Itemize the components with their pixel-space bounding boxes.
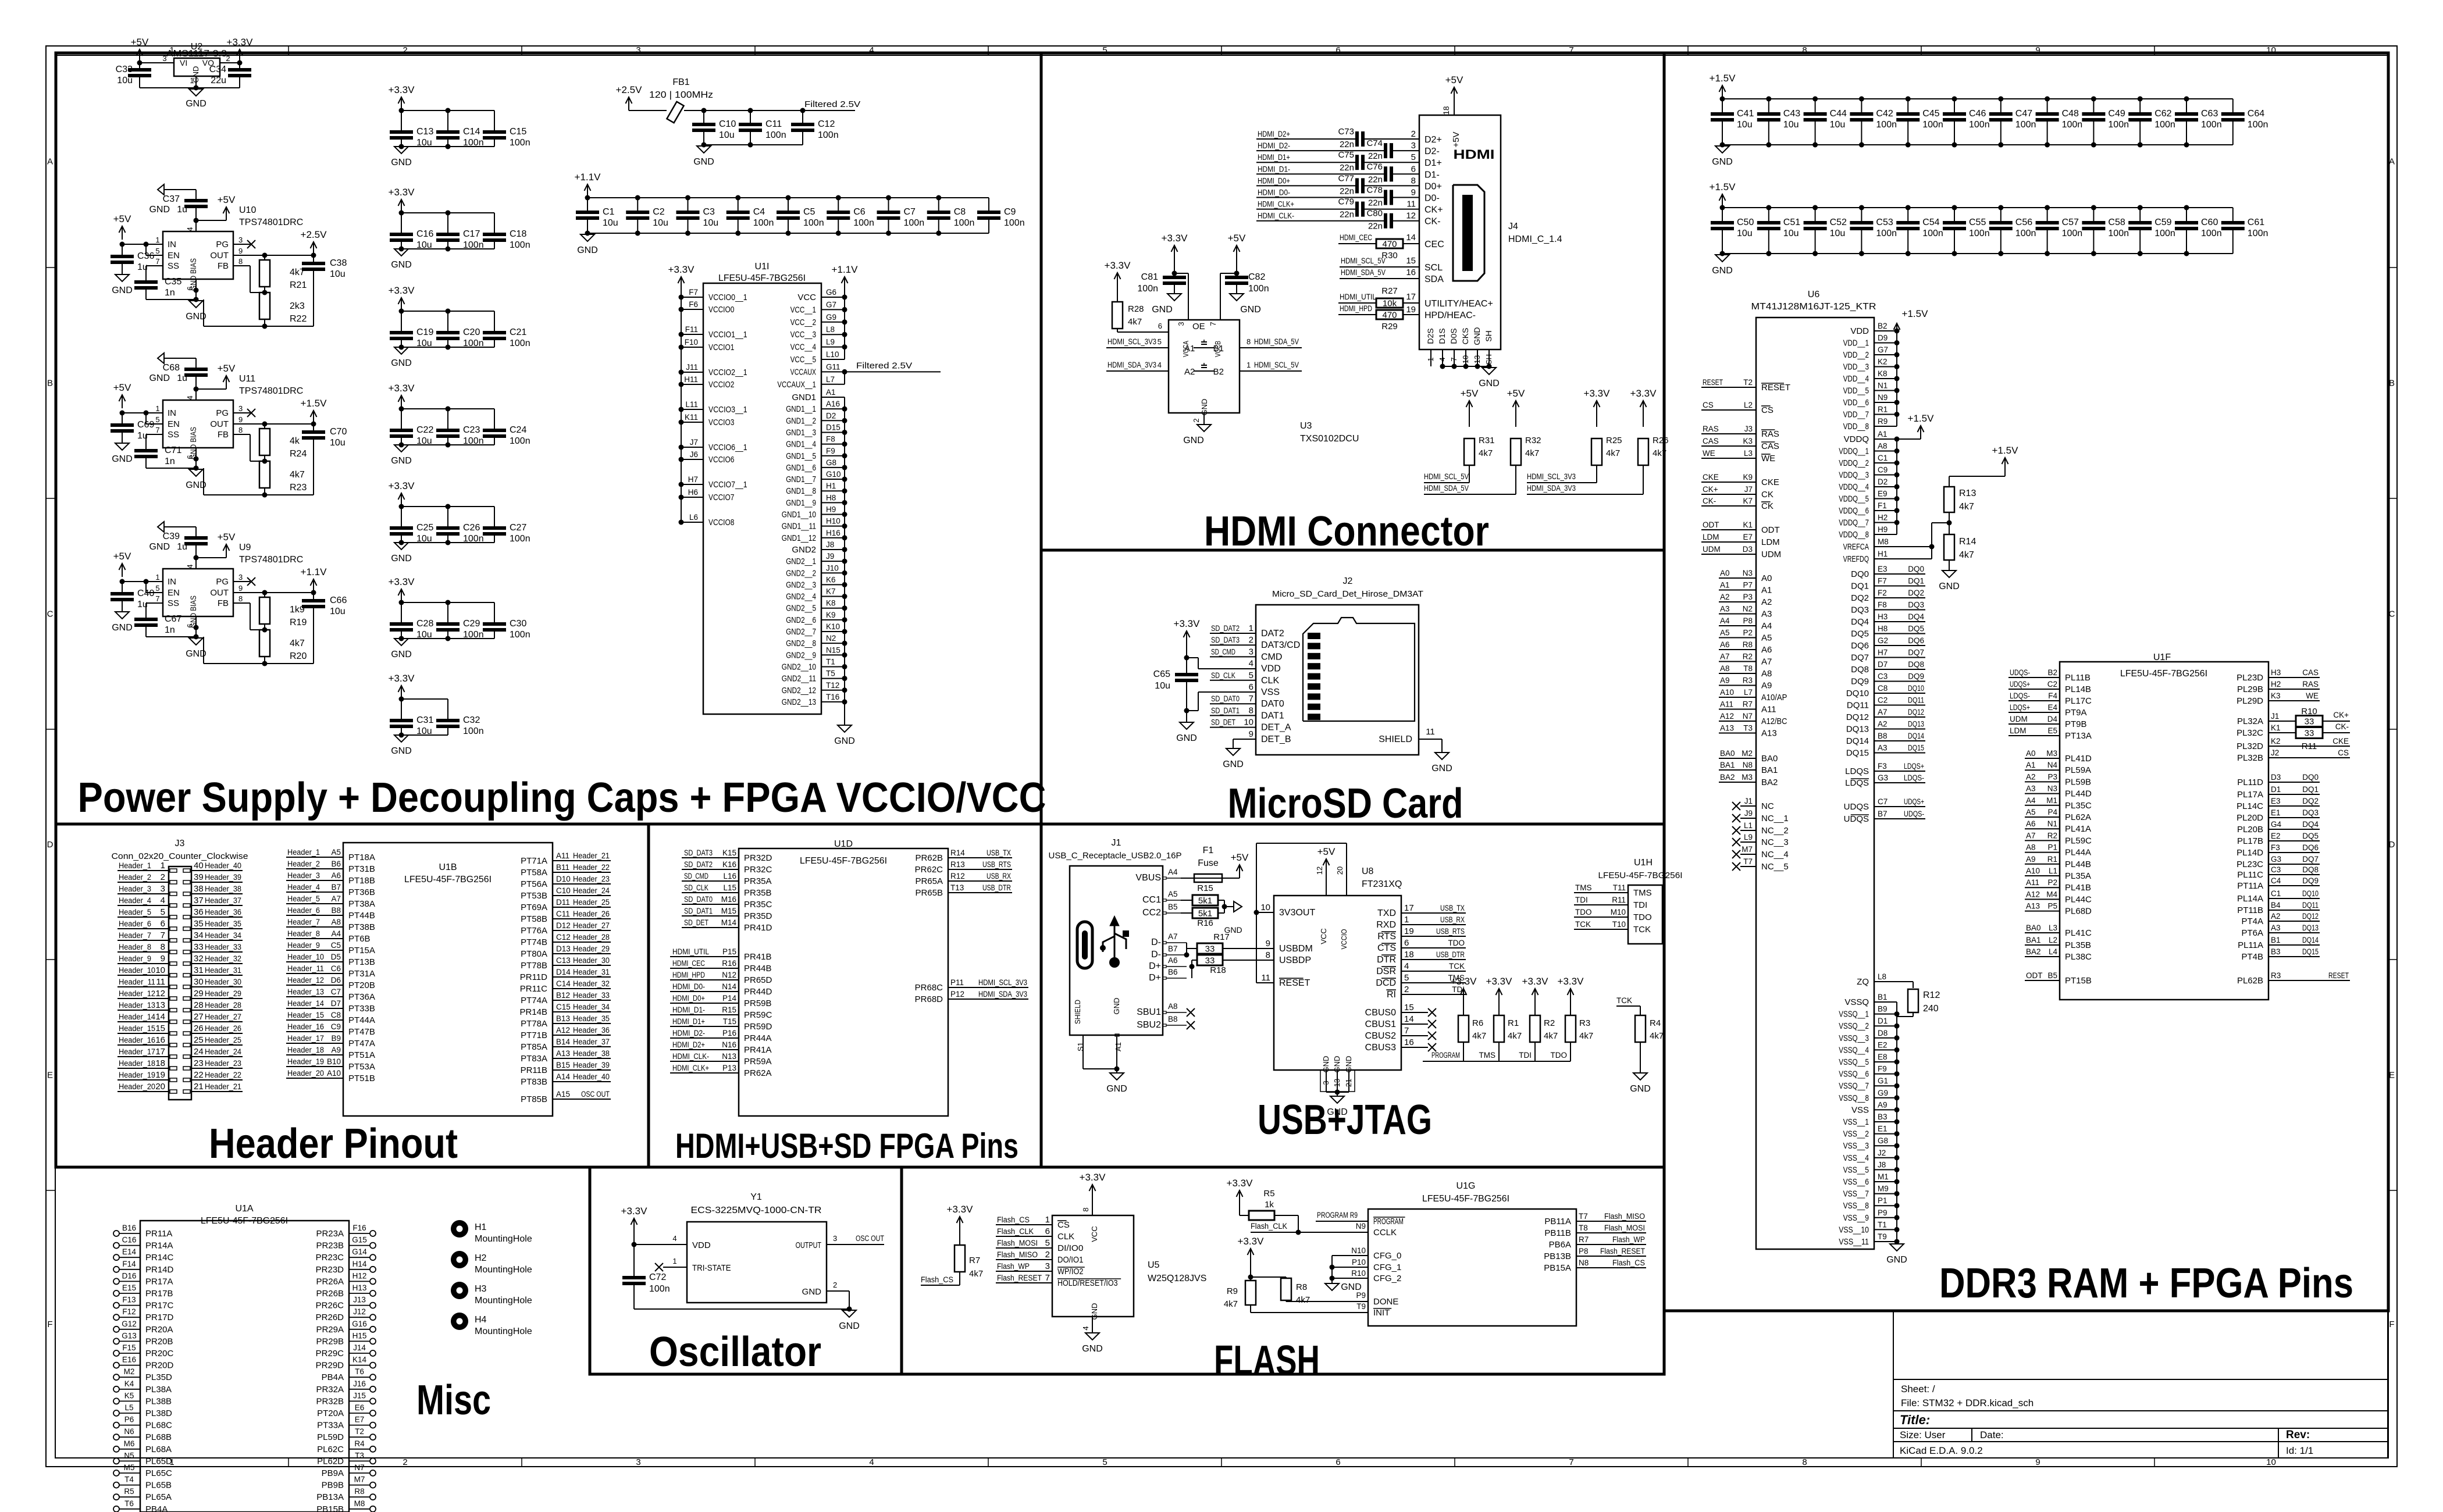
U6 pin F7 DQ1: [1851, 577, 1925, 591]
svg-text:VDDQ__4: VDDQ__4: [1839, 482, 1869, 492]
ground below C81: [1152, 294, 1181, 315]
capacitor C57 100n: [2036, 208, 2083, 254]
svg-text:P16: P16: [722, 1029, 736, 1037]
U1A pin T6 PB4A: [322, 1367, 376, 1382]
svg-text:N6: N6: [124, 1427, 134, 1436]
svg-text:PL38B: PL38B: [145, 1396, 172, 1406]
svg-text:D1S: D1S: [1437, 328, 1447, 344]
svg-text:Flash_CS: Flash_CS: [1612, 1258, 1645, 1267]
svg-text:Header_6: Header_6: [287, 906, 320, 915]
ground for bank C13: [391, 147, 412, 167]
svg-text:35: 35: [194, 919, 204, 929]
svg-text:GND: GND: [1090, 1303, 1099, 1320]
U1F pin H3 CAS: [2237, 668, 2320, 683]
resistor R4 4k7 TCK pulldown: [1616, 996, 1664, 1073]
svg-text:22n: 22n: [1368, 174, 1383, 184]
svg-text:PR20B: PR20B: [145, 1336, 173, 1346]
svg-text:F15: F15: [122, 1343, 136, 1352]
U6 pin D7 DQ8: [1851, 660, 1925, 675]
svg-text:A4: A4: [331, 929, 341, 938]
svg-text:DQ5: DQ5: [1908, 625, 1924, 633]
U6 pin C7 UDQS+: [1844, 797, 1925, 812]
svg-text:R13: R13: [1959, 488, 1976, 498]
svg-text:Header_10: Header_10: [119, 966, 155, 975]
svg-text:C17: C17: [463, 229, 480, 239]
svg-text:100n: 100n: [803, 218, 824, 228]
svg-text:DQ10: DQ10: [2302, 889, 2319, 898]
svg-text:VDD__4: VDD__4: [1843, 374, 1869, 384]
svg-text:MT41J128M16JT-125_KTR: MT41J128M16JT-125_KTR: [1751, 302, 1876, 312]
capacitor C1 10u: [576, 198, 618, 233]
svg-text:PR59D: PR59D: [744, 1022, 772, 1032]
svg-text:DQ0: DQ0: [2302, 773, 2319, 782]
svg-text:A7: A7: [1168, 932, 1178, 941]
svg-text:R15: R15: [722, 1005, 736, 1014]
capacitor C74 22n: [1256, 138, 1419, 161]
svg-text:PB6A: PB6A: [1549, 1240, 1571, 1250]
J2 pin 4 VDD: [1249, 659, 1281, 674]
svg-text:E1: E1: [1878, 1125, 1888, 1133]
svg-text:CBUS2: CBUS2: [1365, 1031, 1396, 1041]
svg-text:C8: C8: [331, 1011, 341, 1019]
U1A pin R4 PL62C: [317, 1439, 376, 1454]
U3 pin A1 HDMI_SCL_3V3: [1106, 337, 1169, 348]
FPGA U1A LFE5U-45F-7BG256I: [140, 1204, 349, 1512]
svg-text:K8: K8: [1878, 369, 1888, 378]
svg-text:8: 8: [1802, 1457, 1807, 1467]
capacitor C61 100n: [2221, 208, 2268, 254]
U1F pin P2 A11: [2025, 878, 2091, 893]
svg-text:J16: J16: [353, 1379, 366, 1388]
J3 pin 2 Header_2: [117, 872, 177, 884]
svg-text:BA0: BA0: [1720, 749, 1735, 758]
U8 pin 10 3V3OUT: [1256, 903, 1315, 918]
svg-text:F3: F3: [1878, 762, 1887, 771]
U6 pin C2 DQ11: [1847, 696, 1925, 711]
capacitor C72 100n: [622, 1244, 670, 1309]
svg-text:B7: B7: [331, 883, 341, 891]
svg-text:PR11D: PR11D: [520, 972, 547, 982]
ground at J2 DET_B: [1223, 739, 1256, 769]
U1F pin G3 DQ7: [2237, 855, 2320, 869]
capacitor C46 100n: [1943, 99, 1990, 145]
svg-text:10u: 10u: [1783, 229, 1799, 238]
U8 pin 14 CBUS1 no-connect: [1365, 1014, 1436, 1029]
svg-text:H1: H1: [475, 1222, 487, 1232]
svg-text:+5V: +5V: [113, 551, 131, 562]
svg-text:D2: D2: [826, 411, 836, 420]
svg-text:PROGRAM R9: PROGRAM R9: [1317, 1211, 1358, 1219]
capacitor C27 100n: [483, 507, 530, 544]
ferrite bead FB1 120 | 100MHz: [629, 77, 713, 123]
svg-text:DDR3 RAM + FPGA Pins: DDR3 RAM + FPGA Pins: [1939, 1260, 2353, 1307]
svg-text:+3.3V: +3.3V: [1630, 388, 1657, 399]
svg-text:C9: C9: [1004, 207, 1016, 217]
svg-text:VCCIO6__1: VCCIO6__1: [708, 443, 747, 452]
svg-text:PR23C: PR23C: [316, 1253, 344, 1263]
svg-text:GND2__7: GND2__7: [786, 627, 816, 637]
svg-text:VSS__7: VSS__7: [1843, 1189, 1869, 1199]
svg-text:VSS__2: VSS__2: [1843, 1129, 1869, 1139]
svg-text:C68: C68: [163, 363, 180, 373]
svg-text:+3.3V: +3.3V: [947, 1204, 974, 1215]
svg-text:4: 4: [869, 1457, 874, 1467]
svg-text:A11: A11: [1761, 705, 1776, 715]
U1F pin N4 A1: [2025, 761, 2091, 775]
svg-text:P1: P1: [2047, 843, 2057, 852]
svg-text:Header_34: Header_34: [573, 1003, 610, 1011]
svg-text:N7: N7: [1743, 712, 1753, 721]
svg-text:Header_37: Header_37: [573, 1037, 610, 1046]
svg-text:10u: 10u: [117, 76, 133, 85]
svg-text:R4: R4: [354, 1439, 365, 1448]
svg-text:C27: C27: [510, 523, 526, 533]
svg-text:2: 2: [1404, 985, 1409, 994]
svg-text:GND1__11: GND1__11: [782, 522, 816, 532]
svg-text:B14: B14: [556, 1037, 571, 1046]
svg-text:Rev:: Rev:: [2286, 1429, 2310, 1441]
svg-text:PR32D: PR32D: [744, 853, 772, 863]
svg-text:C11: C11: [765, 119, 782, 129]
svg-text:LDQS: LDQS: [1845, 766, 1869, 776]
svg-text:Header_5: Header_5: [287, 894, 320, 903]
J3 pin 10 Header_10: [117, 965, 177, 977]
svg-text:PT20A: PT20A: [317, 1408, 344, 1418]
FPGA U1H LFE5U-45F-7BG256I: [1598, 858, 1683, 944]
svg-text:Header_19: Header_19: [119, 1071, 155, 1079]
svg-text:K9: K9: [1743, 473, 1753, 482]
svg-text:VCC__2: VCC__2: [790, 318, 816, 327]
U1D pin R12 USB_RX: [915, 872, 1012, 886]
svg-text:P9: P9: [1356, 1291, 1366, 1300]
svg-text:K3: K3: [2271, 691, 2281, 700]
svg-text:10: 10: [155, 965, 165, 975]
svg-text:T13: T13: [950, 883, 964, 892]
svg-text:N5: N5: [124, 1451, 134, 1460]
svg-text:A6: A6: [331, 871, 341, 880]
svg-text:A12: A12: [2026, 890, 2040, 898]
svg-text:PL68A: PL68A: [145, 1445, 172, 1454]
svg-text:11: 11: [156, 977, 165, 987]
svg-text:Header_14: Header_14: [119, 1012, 155, 1021]
U1A pin K4 PL38A: [113, 1379, 172, 1395]
svg-text:C26: C26: [463, 523, 480, 533]
svg-text:29: 29: [194, 989, 204, 999]
svg-text:U1H: U1H: [1634, 858, 1653, 868]
svg-text:1n: 1n: [165, 457, 175, 466]
svg-text:E3: E3: [2271, 797, 2281, 805]
J4 pin 5 D1+: [1411, 152, 1442, 168]
svg-text:DQ3: DQ3: [2302, 808, 2319, 817]
svg-text:GND: GND: [186, 99, 206, 109]
power +5V at J4 pin 18: [1442, 74, 1463, 148]
svg-text:F13: F13: [122, 1296, 136, 1304]
svg-text:M10: M10: [1611, 908, 1626, 917]
svg-text:5: 5: [1045, 1238, 1050, 1248]
wire to pin 4: [194, 544, 199, 569]
svg-text:38: 38: [194, 884, 204, 894]
U1A pin F12 PR17D: [113, 1307, 174, 1322]
J3 pin 3 Header_3: [117, 884, 177, 896]
svg-text:Header_22: Header_22: [205, 1071, 241, 1079]
svg-text:PG: PG: [216, 408, 229, 418]
svg-text:C28: C28: [416, 619, 433, 629]
ground below C1: [577, 234, 598, 255]
svg-text:C46: C46: [1969, 109, 1986, 119]
svg-text:B8: B8: [1168, 1015, 1178, 1024]
svg-text:DQ1: DQ1: [1851, 582, 1869, 591]
U1G pin T9 INIT: [1251, 1302, 1391, 1318]
U1H pin T10 TCK: [1574, 920, 1651, 935]
svg-text:Header_26: Header_26: [205, 1024, 241, 1033]
U1A pin F14 PR14D: [113, 1260, 174, 1275]
svg-text:SCL: SCL: [1425, 263, 1443, 273]
svg-text:GND: GND: [802, 1287, 822, 1297]
U1F pin E3 DQ2: [2237, 797, 2320, 811]
svg-text:+3.3V: +3.3V: [1162, 233, 1188, 244]
svg-text:R14: R14: [950, 848, 965, 857]
svg-text:OSC OUT: OSC OUT: [581, 1090, 610, 1099]
svg-text:10: 10: [1244, 718, 1253, 728]
J2 pin 7 DAT0: [1210, 694, 1284, 709]
svg-text:DQ10: DQ10: [1846, 689, 1869, 698]
svg-text:H6: H6: [688, 488, 698, 497]
svg-text:PR17C: PR17C: [145, 1301, 174, 1311]
svg-text:PT31B: PT31B: [348, 864, 375, 874]
svg-text:2: 2: [1045, 1250, 1050, 1260]
capacitor C54 100n: [1896, 208, 1943, 254]
svg-text:HDMI Connector: HDMI Connector: [1204, 508, 1489, 555]
svg-text:19: 19: [1404, 926, 1414, 936]
U5 pin 3 WP/IO2: [996, 1261, 1085, 1276]
J3 pin 1 Header_1: [117, 861, 177, 872]
svg-text:VDDQ__8: VDDQ__8: [1839, 530, 1869, 540]
U6 pin C8 DQ10: [1846, 684, 1925, 698]
svg-text:CAS: CAS: [1761, 441, 1779, 451]
U1D pin K16 SD_DAT2: [682, 860, 772, 875]
capacitor C69: [111, 413, 154, 443]
svg-text:C60: C60: [2201, 217, 2218, 227]
svg-text:+3.3V: +3.3V: [389, 480, 415, 491]
svg-text:C5: C5: [803, 207, 815, 217]
U3 pin B1 HDMI_SDA_5V: [1240, 337, 1302, 348]
svg-text:TMS: TMS: [1479, 1051, 1496, 1060]
svg-text:CS: CS: [1761, 405, 1774, 415]
svg-text:1: 1: [1404, 915, 1409, 925]
U1F pin M4 A12: [2025, 890, 2092, 904]
svg-text:D: D: [47, 840, 54, 850]
svg-text:UDM: UDM: [2010, 715, 2028, 723]
wire C1-C9 bottom rail: [585, 231, 989, 236]
svg-text:DQ3: DQ3: [1908, 601, 1924, 609]
ground flag CC resistors: [1224, 901, 1242, 935]
svg-text:7: 7: [1209, 322, 1217, 326]
svg-text:Flash_CLK: Flash_CLK: [1251, 1222, 1287, 1231]
U1B pin A6 Header_3: [286, 871, 375, 886]
svg-text:14: 14: [1406, 233, 1416, 243]
svg-text:HDMI_D0+: HDMI_D0+: [1258, 176, 1290, 185]
svg-text:+5V: +5V: [218, 363, 236, 374]
svg-text:D-: D-: [1151, 950, 1161, 960]
svg-text:M6: M6: [124, 1439, 135, 1448]
svg-text:D14: D14: [556, 968, 571, 976]
svg-text:9: 9: [238, 584, 243, 593]
svg-text:U5: U5: [1148, 1260, 1160, 1270]
svg-text:VDDQ__7: VDDQ__7: [1839, 518, 1869, 528]
svg-text:10u: 10u: [1737, 120, 1753, 130]
U6 pin A7 DQ12: [1846, 708, 1925, 722]
wire FB1 bottom rail: [701, 142, 803, 148]
svg-text:A6: A6: [1168, 956, 1178, 965]
svg-text:Flash_MISO: Flash_MISO: [1604, 1212, 1645, 1221]
U6 pin R7 A11: [1719, 700, 1776, 715]
U6 pin J3 RAS: [1701, 425, 1779, 439]
connector J4 HDMI_C_1.4: [1419, 115, 1562, 350]
U1A pin G16 PR29A: [316, 1320, 376, 1335]
svg-text:Header_33: Header_33: [573, 991, 610, 1000]
capacitor C7 100n: [877, 198, 925, 233]
svg-text:OUT: OUT: [210, 419, 229, 429]
svg-text:G15: G15: [352, 1236, 367, 1244]
svg-text:PT83B: PT83B: [521, 1077, 547, 1087]
ground below J1: [1106, 1069, 1127, 1094]
svg-text:NC__4: NC__4: [1761, 850, 1789, 860]
svg-text:15: 15: [1406, 256, 1416, 266]
J3 pin 14 Header_14: [117, 1012, 177, 1024]
svg-text:VBUS: VBUS: [1135, 873, 1161, 883]
ground flag for C37: [149, 184, 196, 215]
svg-text:DQ4: DQ4: [2302, 820, 2319, 829]
svg-text:H11: H11: [684, 375, 698, 384]
svg-text:4k7: 4k7: [1128, 317, 1142, 327]
capacitor C73 22n: [1256, 127, 1419, 149]
U1A pin K5 PL38B: [113, 1391, 172, 1406]
U1D pin P15 HDMI_UTIL: [670, 947, 772, 962]
J3 pin 16 Header_16: [117, 1035, 177, 1047]
U1D pin N16 HDMI_D2+: [670, 1040, 772, 1055]
ground for C50: [1712, 255, 1733, 276]
svg-text:C69: C69: [137, 420, 154, 430]
power +3.3V for bank C25: [389, 480, 415, 507]
svg-text:UDQS: UDQS: [1844, 802, 1869, 812]
svg-text:100n: 100n: [753, 218, 774, 228]
svg-text:HDMI_SCL_5V: HDMI_SCL_5V: [1254, 361, 1299, 369]
svg-text:VCC__1: VCC__1: [790, 305, 816, 315]
svg-text:T7: T7: [1743, 857, 1753, 866]
svg-text:VSS__5: VSS__5: [1843, 1165, 1869, 1175]
svg-text:USB_RX: USB_RX: [1440, 915, 1465, 924]
svg-text:GND: GND: [391, 650, 412, 659]
wire U2 GND rail: [140, 76, 240, 91]
svg-text:R27: R27: [1381, 286, 1398, 296]
svg-text:File: STM32 + DDR.kicad_sch: File: STM32 + DDR.kicad_sch: [1901, 1397, 2034, 1408]
wire bank top rail C13: [399, 108, 495, 113]
U6 pin K3 CAS: [1701, 437, 1779, 451]
U6 pin L3 WE: [1701, 449, 1775, 463]
svg-text:INIT: INIT: [1373, 1308, 1390, 1318]
wire output ground return: [204, 637, 314, 666]
svg-text:F1: F1: [1878, 501, 1887, 510]
svg-text:IN: IN: [168, 408, 176, 418]
svg-text:3: 3: [1177, 322, 1185, 326]
U5 pin 5 DI/IO0: [996, 1238, 1083, 1253]
svg-text:Header_8: Header_8: [119, 943, 151, 951]
svg-text:N3: N3: [2047, 784, 2057, 793]
svg-text:HDMI_D2-: HDMI_D2-: [672, 1029, 705, 1037]
U6 pin T8 A8: [1719, 664, 1772, 679]
svg-text:PL32A: PL32A: [2237, 716, 2263, 726]
svg-text:CK: CK: [1761, 490, 1774, 500]
svg-text:8: 8: [1249, 705, 1253, 715]
svg-text:B8: B8: [1878, 732, 1888, 740]
svg-text:HDMI_D1-: HDMI_D1-: [672, 1005, 705, 1014]
svg-text:R9: R9: [1878, 417, 1888, 426]
regulator U11 TPS74801DRC: [146, 374, 303, 459]
U1B pin A14 Header_40: [521, 1072, 611, 1087]
svg-text:PB11B: PB11B: [1544, 1228, 1571, 1238]
power +3.3V at U2 output: [227, 37, 254, 63]
svg-text:C2: C2: [653, 207, 665, 217]
svg-text:TDO: TDO: [1633, 912, 1652, 922]
svg-text:B13: B13: [556, 1014, 570, 1023]
svg-text:100n: 100n: [2062, 120, 2083, 130]
capacitor C79 22n: [1256, 197, 1419, 220]
power +5V after F1: [1231, 852, 1249, 878]
svg-text:PT83A: PT83A: [521, 1054, 547, 1064]
capacitor C66: [302, 593, 347, 664]
svg-text:G14: G14: [352, 1247, 367, 1256]
svg-text:PT71A: PT71A: [521, 856, 547, 866]
U1D pin M14 SD_DET: [682, 918, 772, 933]
svg-text:M4: M4: [2046, 890, 2057, 898]
svg-text:2k3: 2k3: [290, 301, 305, 311]
svg-text:100n: 100n: [510, 240, 530, 250]
svg-text:D13: D13: [556, 944, 571, 953]
resistor R10 33: [2237, 707, 2350, 727]
svg-text:HDMI_D0+: HDMI_D0+: [672, 994, 705, 1003]
U1G pin R7 Flash_WP: [1549, 1235, 1646, 1250]
FPGA U1G LFE5U-45F-7BG256I: [1368, 1181, 1576, 1326]
U1B pin A12 Header_36: [521, 1026, 611, 1040]
U1F pin A3 DQ13: [2241, 923, 2320, 938]
capacitor C49 100n: [2082, 99, 2129, 145]
capacitor C14 100n: [436, 110, 484, 148]
svg-text:PB15A: PB15A: [1544, 1263, 1571, 1273]
svg-text:M2: M2: [1742, 749, 1753, 758]
svg-text:A11: A11: [556, 851, 569, 860]
J2 pin 1 DAT2: [1210, 623, 1284, 639]
U1A pin T6 PB4A: [113, 1499, 168, 1512]
power +2.5V output: [301, 229, 327, 258]
svg-text:100n: 100n: [904, 218, 925, 228]
capacitor C62 100n: [2128, 99, 2175, 145]
svg-text:8: 8: [238, 594, 243, 603]
svg-text:Flash_MOSI: Flash_MOSI: [997, 1239, 1038, 1247]
svg-text:SD_DAT0: SD_DAT0: [684, 895, 713, 904]
label HDMI_SCL_5V: [1424, 472, 1469, 483]
svg-text:Header_18: Header_18: [287, 1046, 324, 1054]
svg-text:CLK: CLK: [1261, 676, 1279, 686]
svg-text:HDMI_CEC: HDMI_CEC: [1340, 233, 1372, 242]
svg-text:VDDQ__3: VDDQ__3: [1839, 470, 1869, 480]
svg-text:PT44B: PT44B: [348, 911, 375, 921]
svg-text:C81: C81: [1141, 272, 1158, 282]
capacitor C43 10u: [1757, 99, 1800, 145]
svg-text:VCCIO8: VCCIO8: [708, 518, 734, 527]
ground for bank C31: [391, 735, 412, 756]
svg-text:C18: C18: [510, 229, 526, 239]
svg-text:USB_DTR: USB_DTR: [1436, 950, 1465, 959]
